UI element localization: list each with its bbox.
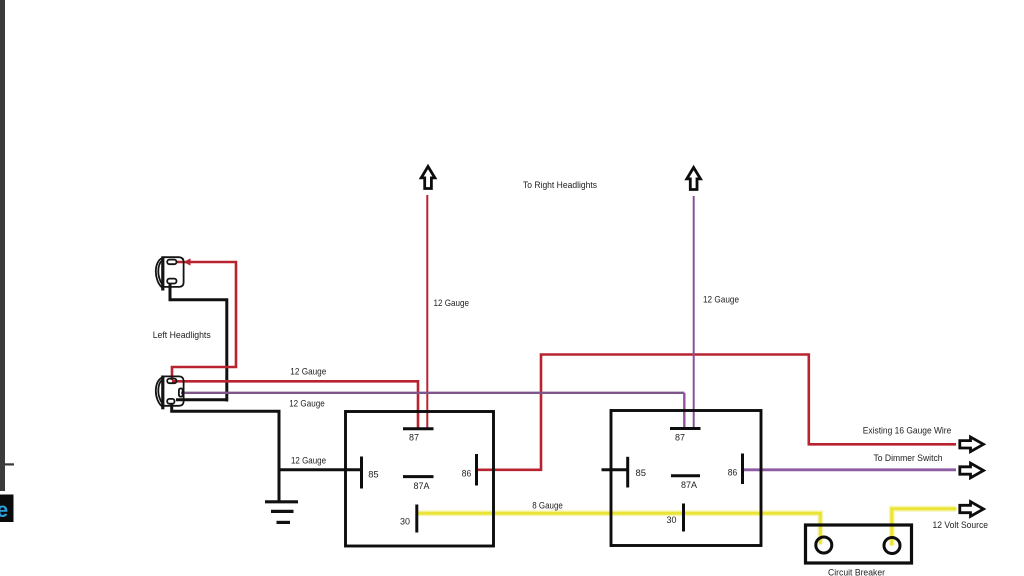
- wire: red wire relay 1 pin 86 to existing 16 gauge wire: [477, 355, 956, 470]
- taskbar tick mark: [4, 463, 14, 465]
- svg-text:87A: 87A: [414, 481, 431, 492]
- relay U1 pin 86: [475, 454, 478, 486]
- svg-text:12 Gauge: 12 Gauge: [291, 456, 326, 467]
- relay U2 pin 87: [670, 427, 701, 430]
- svg-text:30: 30: [400, 517, 410, 528]
- wire: black jumper from lower headlight ground terminal: [176, 398, 228, 401]
- lamp: left headlight (high): [156, 256, 184, 290]
- svg-text:8 Gauge: 8 Gauge: [532, 500, 563, 511]
- wire: 12 Gauge purple riser to right headlights arrow: [693, 196, 695, 428]
- arrow: up arrow to right headlights (purple feed): [687, 168, 701, 190]
- relay U2 box: [611, 411, 761, 546]
- svg-text:To Right Headlights: To Right Headlights: [523, 180, 597, 191]
- wire: 8 Gauge yellow wire relay 1 pin 30 to circuit breaker: [418, 513, 820, 544]
- svg-text:e: e: [0, 499, 8, 522]
- relay U1 pin 85: [360, 457, 363, 489]
- relay U2 pin 85: [626, 457, 629, 488]
- red arrowhead at top headlight terminal: [184, 258, 191, 265]
- wire: purple wire relay 2 pin 86 to dimmer switch: [744, 468, 956, 471]
- svg-text:Circuit Breaker: Circuit Breaker: [828, 568, 885, 576]
- lamp: left headlight (low): [156, 376, 184, 410]
- circuit breaker CB1 box: [806, 525, 912, 563]
- arrow: right arrow existing 16 gauge wire: [960, 437, 984, 452]
- svg-text:To Dimmer Switch: To Dimmer Switch: [874, 453, 943, 464]
- svg-text:12 Gauge: 12 Gauge: [289, 399, 325, 410]
- wire: 12 Gauge black wire to relay 1 pin 85: [279, 468, 361, 471]
- left taskbar strip: [0, 0, 5, 491]
- arrow: right arrow to dimmer switch: [960, 463, 984, 478]
- arrow: right arrow 12 volt source: [960, 502, 984, 517]
- svg-text:Existing 16 Gauge Wire: Existing 16 Gauge Wire: [863, 425, 952, 436]
- relay U1 pin 87: [403, 427, 434, 430]
- wire: yellow halo: [418, 509, 956, 545]
- Edge browser icon: [0, 495, 14, 523]
- relay U2 pin 87A: [671, 474, 700, 477]
- svg-text:85: 85: [368, 470, 379, 481]
- relay U1 pin 87A: [403, 475, 434, 478]
- relay U1 pin 30: [415, 505, 418, 533]
- svg-text:12 Gauge: 12 Gauge: [434, 298, 470, 309]
- circuit breaker terminal 1: [816, 537, 832, 553]
- svg-text:Left Headlights: Left Headlights: [153, 330, 211, 341]
- circuit breaker terminal 2: [884, 538, 900, 554]
- ground: [265, 502, 298, 523]
- svg-text:12 Volt Source: 12 Volt Source: [933, 520, 989, 531]
- svg-text:30: 30: [667, 515, 677, 526]
- svg-text:87A: 87A: [681, 480, 698, 491]
- svg-text:86: 86: [462, 469, 472, 480]
- svg-text:87: 87: [675, 433, 685, 444]
- relay U2 pin 30: [682, 504, 685, 532]
- wire: black ground lead from top headlight to lower headlight: [170, 283, 227, 402]
- svg-text:86: 86: [728, 468, 738, 479]
- wire: red feed from top headlight: [172, 262, 236, 380]
- svg-text:12 Gauge: 12 Gauge: [290, 367, 326, 378]
- wire: 12 Gauge red riser to right headlights arrow: [426, 195, 428, 428]
- relay U2 pin 86: [741, 454, 744, 485]
- wire: black ground run from lower headlight to ground point: [172, 403, 279, 502]
- svg-text:12 Gauge: 12 Gauge: [703, 295, 739, 306]
- wire: black stub at relay 2 pin 85: [602, 468, 627, 471]
- svg-text:85: 85: [636, 468, 647, 479]
- wire: 12 Gauge red wire headlights to relay 1 pin 87: [172, 381, 418, 427]
- svg-text:87: 87: [409, 433, 419, 444]
- arrow: up arrow to right headlights (red feed): [421, 167, 435, 189]
- relay U1 box: [346, 412, 494, 547]
- wire: yellow wire circuit breaker to 12 volt source: [892, 509, 957, 546]
- wire: 12 Gauge purple wire lower headlight to relay 2 pin 87: [181, 392, 684, 394]
